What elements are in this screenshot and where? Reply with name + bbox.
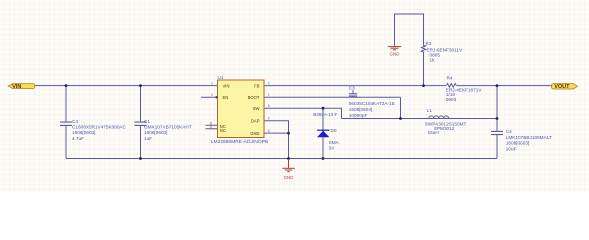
svg-text:ERJ-6ENF3011V: ERJ-6ENF3011V bbox=[427, 47, 463, 52]
junction VOUT/C6 branch bbox=[496, 84, 499, 87]
U1 pin names bbox=[220, 84, 260, 137]
svg-text:1608[0603]: 1608[0603] bbox=[506, 141, 529, 146]
svg-text:1608[0603]: 1608[0603] bbox=[144, 130, 167, 135]
junction VIN/C4 bbox=[65, 84, 68, 87]
svg-text:3A: 3A bbox=[329, 145, 336, 150]
resistor R4 horizontal zigzag bbox=[447, 84, 457, 88]
wire capacitor C1 stems bbox=[140, 86, 142, 159]
capacitor C3 labels bbox=[349, 86, 395, 118]
resistor R4 labels bbox=[446, 76, 483, 102]
capacitor C4 labels bbox=[72, 119, 127, 141]
svg-text:C4: C4 bbox=[72, 119, 78, 124]
svg-text:C1608X5R1V475K080AC: C1608X5R1V475K080AC bbox=[72, 125, 127, 130]
ground label bottom bbox=[284, 175, 294, 180]
svg-text:GMK107AB7105KAHT: GMK107AB7105KAHT bbox=[144, 125, 192, 130]
U1 EN pin dot bbox=[215, 96, 217, 98]
svg-text:15uH: 15uH bbox=[428, 130, 439, 135]
ground symbol top (near R3) bbox=[388, 44, 401, 50]
junction L1 out/C6 bbox=[496, 117, 499, 120]
svg-text:LM22680MRE-ADJ/NOPB: LM22680MRE-ADJ/NOPB bbox=[211, 139, 268, 145]
wire SW to L1 to output bbox=[342, 118, 498, 120]
junction SW/diode bbox=[322, 107, 325, 110]
wire capacitor C4 stems bbox=[65, 86, 67, 159]
U1 NC pin number marks bbox=[210, 122, 212, 129]
diode D0 bbox=[317, 130, 329, 137]
svg-text:SW: SW bbox=[253, 106, 260, 111]
svg-text:VIN: VIN bbox=[12, 84, 21, 90]
svg-text:3: 3 bbox=[211, 93, 213, 97]
svg-text:FB: FB bbox=[254, 84, 260, 89]
wire SW net bbox=[264, 108, 342, 118]
junction GND/DAP pins bbox=[287, 132, 290, 135]
IC U1 buck regulator body bbox=[218, 80, 265, 138]
svg-text:4: 4 bbox=[268, 81, 270, 85]
wire DAP pin bbox=[264, 121, 289, 159]
svg-text:C1: C1 bbox=[144, 119, 150, 124]
svg-text:GND: GND bbox=[390, 52, 400, 57]
svg-text:9: 9 bbox=[268, 117, 270, 121]
svg-text:D0: D0 bbox=[331, 128, 337, 133]
svg-text:1uF: 1uF bbox=[144, 136, 152, 141]
svg-text:GND: GND bbox=[284, 175, 294, 180]
capacitor C6 labels bbox=[506, 129, 552, 151]
resistor R3 vertical zigzag bbox=[421, 46, 425, 53]
svg-text:L1: L1 bbox=[427, 108, 433, 113]
svg-text:GND: GND bbox=[250, 131, 259, 136]
svg-text:6: 6 bbox=[268, 129, 270, 133]
svg-text:4.7uF: 4.7uF bbox=[72, 136, 84, 141]
svg-text:R3: R3 bbox=[426, 41, 432, 46]
svg-text:DAP: DAP bbox=[251, 119, 260, 124]
capacitor C1 plates bbox=[135, 122, 147, 125]
port VOUT bbox=[551, 84, 577, 91]
wire FB net bbox=[264, 85, 552, 87]
wire NC pin stubs bbox=[206, 125, 218, 129]
capacitor C6 plates bbox=[491, 131, 503, 134]
U1 designator bbox=[218, 75, 224, 80]
wire BOOT net bbox=[264, 97, 401, 118]
svg-text:NC: NC bbox=[220, 128, 226, 133]
wire GND rail bottom bbox=[66, 158, 497, 160]
junction SW node/BOOT branch bbox=[399, 117, 402, 120]
junction FB/R3 bbox=[422, 84, 425, 87]
capacitor C1 labels bbox=[144, 119, 192, 141]
svg-text:8: 8 bbox=[268, 104, 270, 108]
wire EN pin stub bbox=[201, 96, 218, 98]
ground symbol bottom bbox=[282, 159, 294, 172]
resistor R3 labels bbox=[426, 41, 463, 62]
U1 pin numbers bbox=[211, 81, 270, 133]
svg-text:BOOT: BOOT bbox=[248, 95, 260, 100]
inductor L1 coil bbox=[429, 116, 449, 119]
svg-text:0603: 0603 bbox=[446, 97, 457, 102]
capacitor C3 bbox=[349, 90, 357, 97]
diode D0 labels bbox=[313, 112, 339, 150]
svg-text:B350A-13-F: B350A-13-F bbox=[313, 112, 338, 117]
capacitor C4 plates bbox=[60, 122, 72, 125]
svg-text:1: 1 bbox=[268, 93, 270, 97]
wire C6 branch bbox=[496, 86, 498, 159]
svg-text:06035C104KAT2A-1E: 06035C104KAT2A-1E bbox=[349, 101, 395, 106]
svg-text:U1: U1 bbox=[218, 75, 224, 80]
port VIN bbox=[8, 84, 35, 91]
svg-text:VOUT: VOUT bbox=[554, 84, 570, 90]
svg-text:1k: 1k bbox=[430, 57, 436, 62]
wire R3 branch to top gnd bbox=[395, 14, 424, 86]
svg-text:10000pF: 10000pF bbox=[349, 113, 368, 118]
U1 part number LM22680MRE-ADJ/NOPB bbox=[211, 139, 268, 145]
svg-text:C3: C3 bbox=[349, 86, 355, 91]
svg-text:VIN: VIN bbox=[223, 84, 230, 89]
inductor L1 labels bbox=[425, 108, 467, 135]
junction GND rail/diode bbox=[322, 157, 325, 160]
svg-text:LMK107BBJ106MALT: LMK107BBJ106MALT bbox=[506, 135, 552, 140]
ground label top bbox=[390, 52, 400, 57]
wire VIN net top bbox=[35, 85, 218, 87]
wire GND pin bbox=[264, 132, 289, 134]
junction GND rail/GND symbol bbox=[287, 157, 290, 160]
svg-text:10uF: 10uF bbox=[506, 146, 517, 151]
svg-text:EN: EN bbox=[223, 95, 229, 100]
svg-text:1608[0603]: 1608[0603] bbox=[72, 130, 95, 135]
svg-text:C4: C4 bbox=[506, 129, 512, 134]
junction VIN/C1 bbox=[139, 84, 142, 87]
svg-text:1608[0603]: 1608[0603] bbox=[349, 107, 372, 112]
svg-text:R4: R4 bbox=[447, 76, 453, 81]
svg-text:2: 2 bbox=[211, 81, 213, 85]
wire diode branch bbox=[322, 108, 324, 158]
junction GND rail/C1 bbox=[139, 157, 142, 160]
